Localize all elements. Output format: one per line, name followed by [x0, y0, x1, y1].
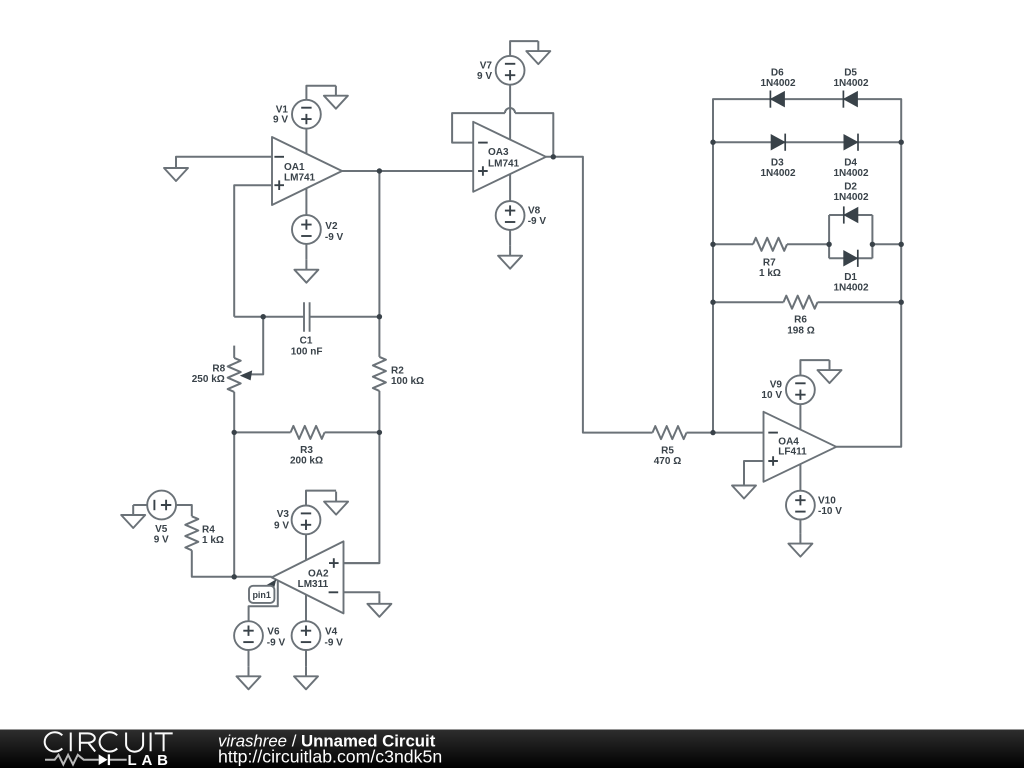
svg-text:C1: C1 [300, 335, 313, 346]
svg-text:9 V: 9 V [273, 115, 288, 126]
svg-text:http://circuitlab.com/c3ndk5n: http://circuitlab.com/c3ndk5n [218, 746, 442, 766]
svg-text:D5: D5 [844, 68, 857, 79]
svg-text:V9: V9 [770, 380, 783, 391]
svg-text:LM311: LM311 [298, 579, 329, 590]
svg-text:D6: D6 [771, 68, 784, 79]
svg-text:-9 V: -9 V [325, 232, 344, 243]
svg-text:1 kΩ: 1 kΩ [759, 268, 781, 279]
svg-text:V3: V3 [277, 509, 290, 520]
svg-text:1N4002: 1N4002 [833, 168, 868, 179]
svg-text:R5: R5 [661, 445, 674, 456]
svg-text:R4: R4 [202, 525, 215, 536]
svg-text:1N4002: 1N4002 [760, 78, 795, 89]
svg-text:-9 V: -9 V [325, 637, 344, 648]
svg-text:LM741: LM741 [284, 173, 316, 184]
svg-text:D4: D4 [844, 157, 857, 168]
svg-text:D2: D2 [844, 182, 857, 193]
svg-text:D1: D1 [844, 272, 857, 283]
svg-text:OA2: OA2 [308, 568, 329, 579]
svg-text:-9 V: -9 V [267, 637, 286, 648]
svg-text:100 kΩ: 100 kΩ [391, 376, 424, 387]
svg-text:1N4002: 1N4002 [760, 168, 795, 179]
svg-text:-9 V: -9 V [528, 216, 547, 227]
svg-text:-10 V: -10 V [818, 506, 842, 517]
svg-text:V4: V4 [325, 626, 338, 637]
svg-text:R3: R3 [300, 445, 313, 456]
svg-text:200 kΩ: 200 kΩ [290, 456, 323, 467]
svg-text:250 kΩ: 250 kΩ [192, 374, 225, 385]
svg-text:OA4: OA4 [778, 436, 799, 447]
svg-text:V8: V8 [528, 205, 541, 216]
svg-text:9 V: 9 V [274, 520, 289, 531]
svg-text:R2: R2 [391, 366, 404, 377]
svg-text:V10: V10 [818, 496, 836, 507]
svg-text:1N4002: 1N4002 [833, 283, 868, 294]
svg-text:198 Ω: 198 Ω [787, 326, 814, 337]
svg-text:R8: R8 [212, 363, 225, 374]
svg-text:LAB: LAB [128, 752, 173, 768]
svg-text:OA1: OA1 [284, 162, 305, 173]
svg-text:470 Ω: 470 Ω [654, 456, 681, 467]
svg-text:9 V: 9 V [477, 71, 492, 82]
svg-text:R7: R7 [763, 258, 776, 269]
svg-text:10 V: 10 V [761, 390, 782, 401]
svg-text:1 kΩ: 1 kΩ [202, 535, 224, 546]
svg-text:OA3: OA3 [488, 147, 509, 158]
svg-text:9 V: 9 V [154, 534, 169, 545]
svg-text:100 nF: 100 nF [291, 346, 323, 357]
svg-text:R6: R6 [794, 315, 807, 326]
svg-text:pin1: pin1 [252, 590, 271, 600]
svg-text:V2: V2 [325, 221, 338, 232]
svg-text:1N4002: 1N4002 [833, 192, 868, 203]
svg-text:V6: V6 [267, 626, 280, 637]
svg-text:LF411: LF411 [778, 447, 807, 458]
svg-text:D3: D3 [771, 157, 784, 168]
svg-text:LM741: LM741 [488, 159, 520, 170]
svg-text:1N4002: 1N4002 [833, 78, 868, 89]
svg-text:V7: V7 [480, 61, 493, 72]
